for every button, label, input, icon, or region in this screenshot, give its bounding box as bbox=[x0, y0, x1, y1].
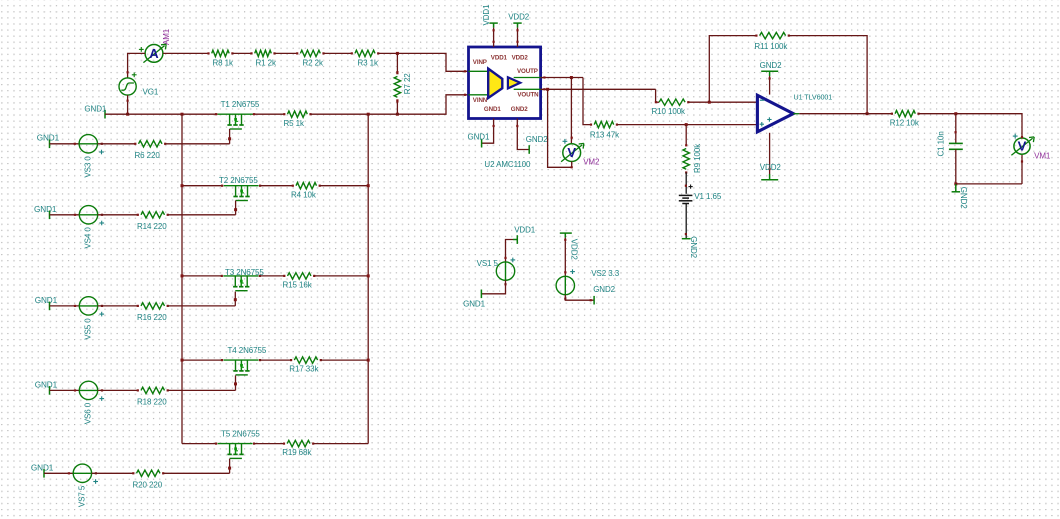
wire ammeter right bbox=[163, 52, 209, 54]
svg-text:VS1 5: VS1 5 bbox=[477, 259, 499, 268]
node row T4 left bbox=[181, 359, 184, 362]
svg-text:GND1: GND1 bbox=[484, 106, 501, 113]
svg-text:VINP: VINP bbox=[473, 59, 487, 66]
svg-text:VM2: VM2 bbox=[583, 158, 600, 167]
ground GND1 row 2 bbox=[49, 211, 51, 220]
power VDD1 at U2 bbox=[489, 22, 497, 24]
wire gnd to VS7 bbox=[44, 472, 73, 474]
power VDD1 at VS1 bbox=[516, 235, 518, 244]
wire row T5 middle bbox=[254, 443, 284, 445]
wire T1 source drop bbox=[229, 129, 231, 144]
wire R11 feedback top bbox=[709, 36, 756, 103]
isolation amplifier U2 AMC1100 bbox=[469, 47, 541, 119]
resistor R6 bbox=[139, 141, 163, 147]
svg-text:VS4 0: VS4 0 bbox=[84, 227, 93, 249]
transistor T1 bbox=[218, 113, 253, 115]
wire row T5 right bbox=[313, 443, 368, 445]
wire row T2 left bbox=[182, 185, 222, 187]
voltage source VS6 bbox=[79, 381, 97, 399]
svg-text:GND1: GND1 bbox=[37, 133, 60, 142]
svg-text:R2 2k: R2 2k bbox=[303, 58, 324, 67]
svg-text:VS2 3.3: VS2 3.3 bbox=[591, 269, 619, 278]
ground GND2 at C1 bbox=[955, 184, 957, 192]
node row T2 left bbox=[181, 184, 184, 187]
svg-text:GND2: GND2 bbox=[689, 236, 698, 258]
resistor R17 bbox=[294, 357, 317, 363]
wire row T2 right bbox=[320, 185, 368, 187]
node junction VG1-bus bbox=[126, 113, 129, 116]
svg-text:R6 220: R6 220 bbox=[135, 151, 161, 160]
svg-text:VM1: VM1 bbox=[1034, 152, 1051, 161]
wire T5 source drop bbox=[229, 459, 231, 474]
ground GND1 top bbox=[104, 110, 106, 119]
wire VS2 bottom bbox=[565, 295, 594, 301]
svg-text:R19 68k: R19 68k bbox=[282, 448, 312, 457]
svg-text:V: V bbox=[567, 145, 576, 160]
node VOUTN bbox=[546, 88, 549, 91]
node R11 left bbox=[708, 101, 711, 104]
wire C1 top lead bbox=[955, 114, 957, 144]
wire row T2 middle bbox=[260, 185, 293, 187]
wire gnd to VS3 bbox=[50, 143, 80, 145]
wire R3 to VINP corner bbox=[378, 53, 468, 71]
wire R11 to output corner bbox=[789, 36, 867, 114]
wire VS7 to R bbox=[92, 472, 134, 474]
wire right bus vertical bbox=[367, 114, 369, 443]
svg-text:R18 220: R18 220 bbox=[137, 397, 167, 406]
wire R9 top lead bbox=[685, 125, 687, 146]
svg-text:A: A bbox=[149, 46, 159, 61]
svg-text:R15 16k: R15 16k bbox=[283, 281, 313, 290]
resistor R13 bbox=[594, 121, 614, 127]
wire R12 to corner bbox=[919, 114, 1023, 138]
resistor R1 bbox=[255, 50, 272, 56]
wire gnd to VS6 bbox=[50, 389, 80, 391]
wire C1 to VM1 bottom bbox=[956, 183, 1022, 185]
svg-text:V1 1.65: V1 1.65 bbox=[694, 192, 722, 201]
plus mark V1 bbox=[689, 186, 693, 188]
wire U2 GND1 pin bbox=[482, 119, 494, 144]
wire R8-R1 bbox=[232, 52, 251, 54]
svg-text:VS5 0: VS5 0 bbox=[84, 318, 93, 340]
node right bus top bbox=[367, 113, 370, 116]
resistor R7 bbox=[394, 76, 400, 97]
svg-text:VINN: VINN bbox=[473, 97, 488, 104]
wire ammeter left to VG1 top bbox=[128, 53, 146, 78]
voltmeter VM2 bbox=[563, 144, 581, 162]
svg-text:GND1: GND1 bbox=[35, 296, 58, 305]
node C1 top bbox=[954, 112, 957, 115]
svg-text:T5 2N6755: T5 2N6755 bbox=[221, 430, 260, 439]
resistor R19 bbox=[287, 440, 310, 446]
transistor T5 bbox=[218, 443, 253, 445]
svg-text:R17 33k: R17 33k bbox=[289, 365, 319, 374]
wire VS1 top bbox=[506, 240, 514, 262]
svg-text:GND1: GND1 bbox=[34, 205, 57, 214]
node T1 source bbox=[228, 137, 231, 140]
wire VS3 to R bbox=[98, 143, 136, 145]
wire C1 bottom lead bbox=[955, 149, 957, 184]
U2 input wire VINN bbox=[469, 94, 489, 96]
wire left bus vertical bbox=[181, 114, 183, 443]
node R9 top bbox=[685, 123, 688, 126]
ground GND2 at VS2 bbox=[593, 296, 595, 305]
wire VS1 bottom bbox=[481, 280, 505, 294]
resistor R11 bbox=[760, 32, 786, 38]
resistor R15 bbox=[288, 273, 312, 279]
svg-text:GND1: GND1 bbox=[463, 300, 485, 309]
voltage generator VG1 bbox=[119, 78, 136, 95]
voltage source VS1 5 bbox=[496, 262, 514, 280]
wire gnd to VS4 bbox=[50, 214, 80, 216]
plus mark VM1 bbox=[1013, 135, 1018, 137]
node T5 source bbox=[228, 467, 231, 470]
svg-text:VDD2: VDD2 bbox=[569, 239, 578, 261]
wire gnd to VS5 bbox=[50, 305, 80, 307]
plus mark VM2 bbox=[563, 140, 568, 142]
svg-text:GND1: GND1 bbox=[35, 381, 58, 390]
svg-text:GND2: GND2 bbox=[760, 61, 782, 70]
svg-text:VS3 0: VS3 0 bbox=[84, 156, 93, 178]
node T4 source bbox=[234, 382, 237, 385]
resistor R4 bbox=[296, 183, 317, 189]
wire R5 to VINN corner bbox=[311, 95, 469, 114]
node left bus top bbox=[181, 113, 184, 116]
transistor T2 bbox=[224, 185, 259, 187]
wire row T4 middle bbox=[260, 359, 291, 361]
node T2 source bbox=[234, 208, 237, 211]
node VOUTP bbox=[570, 76, 573, 79]
svg-text:VS6 0: VS6 0 bbox=[84, 402, 93, 424]
wire row T3 left bbox=[182, 275, 222, 277]
svg-text:R13 47k: R13 47k bbox=[590, 130, 620, 139]
svg-text:U1 TLV6001: U1 TLV6001 bbox=[794, 93, 833, 102]
opamp minus mark bbox=[760, 99, 764, 101]
svg-text:R1 2k: R1 2k bbox=[256, 58, 277, 67]
wire VM1 bottom lead bbox=[1021, 155, 1023, 184]
wire T4 source drop bbox=[235, 375, 237, 390]
ammeter AM1 bbox=[145, 45, 163, 63]
wire VS4 to R bbox=[98, 214, 138, 216]
svg-text:R8 1k: R8 1k bbox=[213, 58, 234, 67]
power VDD2 at U2 bbox=[513, 22, 521, 24]
wire opamp negative supply pin bbox=[769, 133, 771, 174]
wire T3 source drop bbox=[234, 292, 236, 306]
U2 small amp triangle bbox=[508, 77, 520, 88]
node row T3 left bbox=[181, 274, 184, 277]
resistor R18 bbox=[141, 387, 165, 393]
ground GND2 at V1 bbox=[682, 238, 691, 240]
opamp plus marks bbox=[760, 123, 764, 125]
svg-text:GND2: GND2 bbox=[593, 285, 615, 294]
op-amp U1 bbox=[757, 95, 793, 132]
resistor R2 bbox=[300, 50, 320, 56]
node row T4 right bbox=[367, 359, 370, 362]
U2 output wire VOUTP bbox=[514, 77, 541, 79]
resistor R16 bbox=[141, 303, 165, 309]
ground GND1 row 3 bbox=[49, 302, 51, 311]
svg-text:GND1: GND1 bbox=[468, 133, 490, 142]
resistor R20 bbox=[137, 470, 161, 476]
wire R to transistor bbox=[163, 472, 229, 474]
wire VOUTP net bbox=[541, 77, 583, 79]
svg-text:T2 2N6755: T2 2N6755 bbox=[219, 176, 258, 185]
svg-text:AM1: AM1 bbox=[162, 28, 171, 45]
wire VDD2 to U2 bbox=[517, 28, 519, 47]
wire VM2 minus lead bbox=[548, 89, 572, 167]
resistor R9 bbox=[683, 149, 689, 170]
wire row T5 left bbox=[182, 443, 216, 445]
svg-text:VS7 5: VS7 5 bbox=[78, 485, 87, 507]
wire R10 to opamp bbox=[688, 101, 757, 103]
wire row T4 left bbox=[182, 359, 222, 361]
svg-text:VOUTN: VOUTN bbox=[517, 92, 539, 99]
voltage source VS5 bbox=[79, 297, 97, 315]
node R7 bottom bbox=[396, 113, 399, 116]
resistor R10 bbox=[659, 99, 685, 105]
resistor R3 bbox=[355, 50, 375, 56]
voltmeter VM1 bbox=[1014, 138, 1030, 154]
power VDD2 at VS2 bbox=[560, 232, 572, 234]
svg-text:VOUTP: VOUTP bbox=[517, 68, 538, 75]
svg-text:GND1: GND1 bbox=[31, 464, 54, 473]
svg-text:R4 10k: R4 10k bbox=[291, 190, 317, 199]
svg-text:GND2: GND2 bbox=[526, 135, 548, 144]
node R7 top bbox=[396, 52, 399, 55]
svg-text:VDD1: VDD1 bbox=[482, 4, 491, 26]
wire R7 bottom lead bbox=[396, 100, 398, 114]
wire VDD1 to U2 bbox=[493, 28, 495, 47]
svg-text:VDD1: VDD1 bbox=[491, 55, 508, 62]
wire VG1 bottom to bus bbox=[127, 95, 129, 114]
svg-text:R3 1k: R3 1k bbox=[358, 58, 379, 67]
wire R to transistor bbox=[165, 143, 229, 145]
svg-text:VDD2: VDD2 bbox=[508, 13, 530, 22]
battery V1 1.65 bbox=[679, 194, 693, 196]
wire bus T1 row bbox=[253, 113, 285, 115]
wire VS5 to R bbox=[98, 305, 138, 307]
wire VM2 plus lead bbox=[570, 78, 572, 144]
U2 output wire VOUTN bbox=[514, 88, 541, 90]
svg-text:U2 AMC1100: U2 AMC1100 bbox=[484, 160, 531, 169]
wire U2 GND2 pin bbox=[517, 119, 529, 150]
plus mark AM1 bbox=[139, 48, 144, 50]
ground GND1 row 1 bbox=[49, 140, 51, 149]
svg-text:T4 2N6755: T4 2N6755 bbox=[228, 346, 267, 355]
wire VOUTN corner to R10 bbox=[656, 89, 660, 102]
wire R7 top lead bbox=[396, 53, 398, 73]
resistor R14 bbox=[141, 212, 165, 218]
wire T2 source drop bbox=[235, 201, 237, 215]
wire R1-R2 bbox=[275, 52, 298, 54]
wire R to transistor bbox=[168, 305, 235, 307]
svg-text:GND2: GND2 bbox=[511, 106, 528, 113]
svg-text:GND1: GND1 bbox=[84, 105, 106, 114]
wire R to transistor bbox=[168, 214, 236, 216]
svg-text:R7 22: R7 22 bbox=[403, 73, 412, 94]
voltage source VS2 3.3 bbox=[556, 276, 574, 294]
node output feedback bbox=[866, 112, 869, 115]
wire row T3 right bbox=[314, 275, 368, 277]
svg-text:VDD2: VDD2 bbox=[760, 163, 782, 172]
wire R9 to battery bbox=[685, 173, 687, 194]
plus mark VG1 bbox=[132, 74, 137, 76]
ground GND1 at U2 bbox=[481, 139, 483, 148]
voltage source VS7 bbox=[73, 464, 91, 482]
svg-text:VDD1: VDD1 bbox=[514, 225, 536, 234]
ground GND2 at U2 bbox=[528, 145, 530, 154]
voltage source VS3 bbox=[79, 135, 97, 153]
U2 big amp triangle bbox=[488, 69, 502, 98]
svg-text:T1 2N6755: T1 2N6755 bbox=[221, 100, 260, 109]
ground GND1 row 4 bbox=[49, 386, 51, 395]
svg-text:R9 100k: R9 100k bbox=[693, 143, 702, 173]
svg-text:GND2: GND2 bbox=[959, 187, 968, 209]
svg-text:R12 10k: R12 10k bbox=[890, 119, 920, 128]
wire opamp positive supply pin bbox=[769, 76, 771, 95]
svg-text:R16 220: R16 220 bbox=[137, 313, 167, 322]
wire row T3 middle bbox=[260, 275, 284, 277]
svg-text:VDD2: VDD2 bbox=[512, 55, 529, 62]
svg-text:R10 100k: R10 100k bbox=[652, 107, 687, 116]
transistor T4 bbox=[224, 359, 259, 361]
resistor R5 bbox=[288, 111, 308, 117]
wire R to transistor bbox=[168, 389, 236, 391]
svg-text:R5 1k: R5 1k bbox=[284, 119, 305, 128]
node row T2 right bbox=[367, 184, 370, 187]
wire GND1 bus row bbox=[105, 113, 218, 115]
wire opamp output bbox=[793, 113, 799, 115]
voltage source VS4 bbox=[79, 206, 97, 224]
wire VS2 top bbox=[564, 238, 566, 277]
transistor T3 bbox=[223, 275, 258, 277]
svg-text:C1 10n: C1 10n bbox=[937, 131, 946, 156]
U2 input wire VINP bbox=[469, 70, 489, 72]
node C1 bottom bbox=[954, 182, 957, 185]
resistor R12 bbox=[895, 111, 915, 117]
resistor R8 bbox=[212, 50, 230, 56]
node row T3 right bbox=[367, 274, 370, 277]
svg-text:VG1: VG1 bbox=[143, 87, 159, 96]
capacitor C1 bbox=[949, 142, 963, 144]
wire VOUTP corner down to R13 bbox=[583, 78, 591, 125]
wire VOUTN net bbox=[541, 88, 656, 90]
wire R2-R3 bbox=[324, 52, 352, 54]
svg-text:R11 100k: R11 100k bbox=[754, 42, 788, 51]
svg-text:R14 220: R14 220 bbox=[137, 222, 167, 231]
svg-text:V: V bbox=[1018, 139, 1027, 154]
wire battery to ground bbox=[685, 204, 687, 239]
node T3 source bbox=[234, 298, 237, 301]
wire VS6 to R bbox=[98, 389, 138, 391]
power VDD2 at opamp bbox=[769, 174, 771, 180]
wire row T4 right bbox=[321, 359, 368, 361]
ground GND2 above opamp bbox=[761, 70, 778, 72]
ground GND1 at VS1 bbox=[480, 290, 482, 299]
svg-text:R20 220: R20 220 bbox=[133, 480, 163, 489]
ground GND1 row 5 bbox=[43, 469, 45, 478]
wire R13 to opamp bbox=[617, 124, 758, 126]
